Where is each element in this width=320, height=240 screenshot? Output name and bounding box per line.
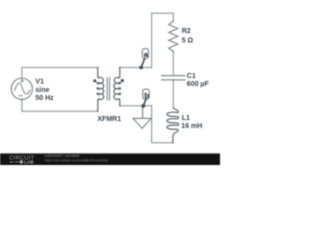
svg-text:V1: V1 [35,78,44,85]
transformer core [107,78,109,100]
wire C1 to L1 lead [172,80,174,108]
probe b box [143,89,149,99]
junction dot a [139,66,143,70]
transformer XFMR1 left winding [97,68,104,112]
V1 minus sign [19,95,22,97]
logo resistor glyph + LAB [10,161,19,163]
wire node b horizontal [120,105,152,107]
svg-text:LAB: LAB [24,159,34,164]
wire node a vertical [151,13,153,67]
wire node a horizontal [120,67,152,69]
probe b flag pole [143,99,146,106]
probe a flag pole [141,59,144,68]
svg-text:C1: C1 [187,73,196,80]
coils (denser strokes) [97,68,179,143]
ground stem [142,106,144,119]
wire top-left rail [22,68,98,79]
svg-text:50 Hz: 50 Hz [35,95,54,102]
component symbols (medium) [11,21,185,128]
svg-text:600 µF: 600 µF [187,81,210,88]
resistor R2 zigzag [169,21,178,52]
wire top rail right [152,12,174,14]
phase dot left [93,79,96,82]
probe a box [142,49,148,59]
inductor L1 [167,108,179,143]
V1 sine glyph [15,83,30,94]
svg-text:R2: R2 [182,28,191,35]
svg-text:b: b [144,91,149,100]
dark marks [93,59,146,108]
capacitor C1 plates [162,76,185,80]
wire bottom-left rail [22,99,98,111]
plain wires (lighter) [22,13,173,143]
svg-text:16 mH: 16 mH [181,123,202,130]
svg-text:5 Ω: 5 Ω [182,38,194,45]
voltage source V1 circle [11,78,32,99]
svg-text:L1: L1 [182,115,190,122]
svg-text:http://circuitlab.com/cw8k7hru: http://circuitlab.com/cw8k7hrusxh9p [45,158,109,163]
transformer XFMR1 right winding [114,68,121,106]
wire bottom right rail [152,106,173,143]
labels [35,28,209,130]
footer bar [0,153,220,165]
svg-text:XFMR1: XFMR1 [97,116,121,123]
junction dot b [141,104,145,108]
phase dot right [121,79,124,82]
ground triangle [133,118,151,128]
wire R2 to C1 lead [172,52,174,76]
wire R2 top lead [172,13,174,21]
V1 plus sign [21,80,24,83]
svg-text:sine: sine [35,87,49,94]
